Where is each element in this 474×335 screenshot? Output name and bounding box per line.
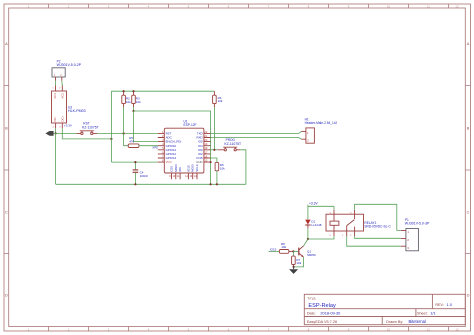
svg-text:EasyEDA V5.7.26: EasyEDA V5.7.26	[307, 320, 337, 324]
switch RST KZ-11075T	[77, 131, 98, 135]
node R6 bottom junction	[216, 183, 218, 185]
svg-text:B: B	[467, 126, 470, 131]
wire 3.3V top rail	[111, 90, 214, 92]
svg-text:1.0: 1.0	[447, 302, 453, 307]
svg-text:DC+: DC+	[60, 115, 64, 121]
resistor R2	[122, 91, 126, 107]
svg-text:Drawn By:: Drawn By:	[386, 320, 403, 324]
wire DC+ to 3.3V node	[62, 128, 111, 139]
node R2 top junction	[123, 90, 125, 92]
svg-text:10k: 10k	[281, 245, 286, 249]
wire P2 pin2 to U3 AC2	[61, 81, 64, 86]
wire P2 pin1 to U3 AC1	[55, 81, 57, 86]
resistor R6	[215, 162, 219, 184]
wire base node to Q1	[293, 250, 298, 252]
wire +3.3V to D1 and relay coil	[308, 205, 334, 220]
svg-text:KZ-11075T: KZ-11075T	[82, 125, 99, 129]
module U3 HLK-PM03	[52, 85, 67, 128]
svg-text:A: A	[467, 41, 470, 46]
ground symbol	[289, 267, 298, 274]
svg-text:AC2: AC2	[60, 93, 64, 99]
wire relay NC to P1 pin1	[355, 204, 401, 230]
svg-text:470: 470	[129, 139, 134, 143]
relay RELAY1 SRD-05VDC-SL-C	[326, 210, 364, 237]
node GND row junction at x210.6	[210, 183, 212, 185]
svg-text:Sheet:: Sheet:	[417, 312, 428, 316]
wire emitter to ground node	[294, 257, 304, 267]
svg-text:Biteternal: Biteternal	[409, 319, 426, 324]
wire VCC row	[111, 161, 157, 163]
wire RST row left segment	[54, 132, 77, 134]
node R3 bottom junction	[132, 110, 134, 112]
svg-text:11: 11	[427, 327, 430, 331]
wire R4 bottom to IO0	[213, 107, 215, 150]
svg-text:Header-Male-2.54_1x2: Header-Male-2.54_1x2	[305, 121, 338, 125]
capacitor C4	[133, 162, 139, 184]
svg-text:SRD-05VDC-SL-C: SRD-05VDC-SL-C	[364, 225, 391, 229]
wire TXD to H1	[211, 131, 302, 133]
svg-text:+3.3V: +3.3V	[309, 201, 319, 205]
resistor R8	[279, 250, 293, 254]
svg-text:100nF: 100nF	[140, 174, 149, 178]
node 3.3V feeder junction	[110, 138, 112, 140]
connector P2	[52, 68, 65, 81]
svg-text:TITLE:: TITLE:	[307, 297, 316, 301]
svg-text:B: B	[5, 126, 8, 131]
wire relay NO to P1 pin2	[355, 236, 401, 238]
ground net port arrow	[45, 131, 53, 136]
svg-text:D: D	[5, 293, 8, 298]
svg-text:2018-09-30: 2018-09-30	[320, 311, 341, 316]
svg-text:IO9: IO9	[178, 167, 182, 172]
node IO0 junction	[213, 149, 215, 151]
wire PROG to GND loop	[240, 150, 246, 185]
svg-text:GND: GND	[196, 160, 202, 164]
svg-text:LL4148: LL4148	[311, 223, 321, 227]
wire coil- to collector node	[308, 236, 334, 239]
svg-text:D: D	[467, 293, 470, 298]
resistor R4	[213, 91, 217, 107]
svg-text:Date:: Date:	[307, 312, 316, 316]
wire R3 bottom	[133, 107, 135, 111]
transistor Q1 S8050	[299, 246, 304, 257]
wire IO15 to R6	[211, 158, 217, 162]
svg-text:DC-: DC-	[53, 116, 57, 121]
svg-text:A: A	[5, 41, 8, 46]
svg-text:WJ301V-5.0-3P: WJ301V-5.0-3P	[405, 221, 430, 225]
connector P1	[401, 229, 419, 251]
node C4 top junction	[134, 161, 136, 163]
svg-text:AC1: AC1	[53, 93, 57, 99]
svg-text:12: 12	[455, 327, 459, 331]
node C4 bottom junction	[134, 183, 136, 185]
svg-text:C: C	[5, 210, 8, 215]
IC U1 ESP-12F	[158, 128, 211, 179]
svg-text:WJ301V-5.0-2P: WJ301V-5.0-2P	[57, 63, 82, 67]
resistor R5	[124, 133, 158, 147]
svg-text:10k: 10k	[136, 100, 141, 104]
svg-text:ESP-Relay: ESP-Relay	[308, 303, 336, 309]
U1 left pin names	[166, 132, 182, 161]
svg-text:10k: 10k	[218, 99, 223, 103]
svg-text:KZ-11075T: KZ-11075T	[224, 142, 241, 146]
svg-text:+3.3V: +3.3V	[64, 124, 72, 128]
svg-text:HLK-PM03: HLK-PM03	[68, 109, 86, 113]
svg-text:1/1: 1/1	[430, 311, 435, 316]
svg-text:11: 11	[427, 4, 430, 8]
svg-text:12: 12	[455, 4, 459, 8]
switch PROG KZ-11075T	[218, 147, 241, 151]
U1 right pin names	[196, 132, 203, 161]
wire GND bottom row	[56, 183, 246, 185]
node base junction	[292, 250, 294, 252]
U1 bottom pin names	[170, 164, 200, 172]
wire IO0 to PROG	[211, 149, 218, 151]
wire DC- down to ground row	[55, 128, 57, 133]
svg-text:10k: 10k	[220, 167, 225, 171]
svg-text:ESP-12F: ESP-12F	[184, 123, 197, 127]
node collector junction	[307, 238, 309, 240]
node DC- junction	[55, 132, 57, 134]
svg-text:10: 10	[387, 4, 391, 8]
svg-text:XPD: XPD	[152, 146, 158, 150]
connector H1	[301, 128, 314, 143]
svg-text:REV:: REV:	[435, 303, 443, 307]
svg-text:IO15: IO15	[270, 247, 277, 251]
wire relay COM to P1 pin3	[347, 236, 401, 246]
svg-text:S8050: S8050	[307, 253, 316, 257]
node GND pin junction	[210, 161, 212, 163]
svg-text:SCLK: SCLK	[195, 164, 199, 172]
wire collector to node	[304, 239, 308, 246]
svg-text:VCC: VCC	[166, 160, 172, 164]
svg-text:10: 10	[387, 327, 391, 331]
title block	[304, 294, 465, 324]
node R3 top junction	[132, 90, 134, 92]
node RST/R2 junction	[123, 132, 125, 134]
wire EN branch vertical and row	[134, 111, 158, 142]
wire R2 bottom to RST row	[123, 107, 125, 133]
resistor R3	[132, 91, 136, 107]
wire GND vertical left	[55, 133, 57, 184]
svg-text:10k: 10k	[126, 100, 131, 104]
svg-text:10k: 10k	[296, 261, 301, 265]
wire D1 to collector node	[307, 228, 309, 239]
wire RST row right segment to U1	[97, 132, 158, 134]
U1 left pin numbers	[162, 130, 164, 163]
svg-text:C: C	[467, 210, 470, 215]
wire RXD to H1	[211, 138, 302, 140]
wire EN net to right vertical	[134, 111, 211, 184]
U1 bottom pin numbers	[169, 174, 197, 178]
U1 right pin numbers	[204, 130, 207, 163]
node emitter ground junction	[293, 266, 295, 268]
wire 3.3V feeder vertical	[110, 91, 112, 162]
diode D1 LL4148	[305, 220, 310, 229]
resistor R7	[292, 251, 296, 267]
wire input to R8	[269, 250, 280, 252]
